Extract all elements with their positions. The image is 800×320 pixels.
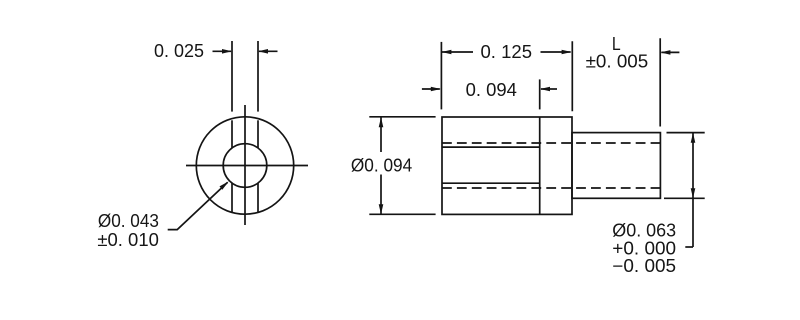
svg-text:0. 025: 0. 025 (154, 41, 204, 61)
hidden hole line upper (442, 142, 660, 144)
dia 0.094 top extension line (369, 116, 435, 118)
vertical centerline (244, 105, 246, 225)
dia 0.063 leader hook (685, 246, 693, 248)
arrowhead dia063 up (691, 133, 696, 143)
arrowhead dia094 down (379, 204, 384, 214)
arrowhead dia094 up (379, 117, 384, 127)
extension line slot end (539, 79, 541, 109)
dia 0.063 dimension line (692, 133, 694, 247)
0.025 dimension line left (213, 50, 232, 52)
extension line body right (571, 41, 573, 111)
slot left edge line upper (231, 120, 233, 148)
horizontal centerline (186, 165, 308, 167)
arrowhead 0.094 right (540, 87, 550, 92)
dia 0.063 bottom extension line (664, 197, 705, 199)
hidden hole line lower (442, 187, 660, 189)
0.125 dimension line right segment (541, 51, 571, 53)
L dimension arrow tail right (661, 51, 679, 53)
arrowhead 0.094 left (431, 87, 441, 92)
svg-text:±0. 010: ±0. 010 (97, 230, 158, 250)
dia 0.094 bottom extension line (369, 213, 435, 215)
extension line left of 0.025 dim (231, 41, 233, 112)
svg-text:Ø0. 043: Ø0. 043 (98, 211, 159, 231)
arrowhead 0.025 right (258, 49, 268, 54)
slot left edge line lower (231, 183, 233, 212)
arrowhead 0.125 right (562, 50, 572, 55)
inner hole circle of end view (223, 144, 267, 188)
dia 0.094 dimension line lower segment (380, 175, 382, 215)
svg-text:±0. 005: ±0. 005 (586, 52, 649, 72)
outer circle of end view (196, 117, 293, 214)
arrowhead dia063 down (691, 188, 696, 198)
dia 0.063 top extension line (667, 132, 705, 134)
dia 0.094 dimension line upper segment (380, 117, 382, 152)
extension line body left (440, 42, 442, 110)
slot right edge line upper (257, 120, 259, 148)
svg-text:0. 125: 0. 125 (481, 42, 533, 62)
arrowhead leader (220, 181, 229, 190)
slot right edge line lower (257, 183, 259, 212)
extension line right of 0.025 dim (257, 41, 259, 112)
arrowhead L right (660, 50, 670, 55)
extension line cylinder right (659, 38, 661, 126)
leader line to hole (168, 182, 228, 229)
small cylinder rectangle (572, 133, 660, 199)
bottom prong top edge (442, 182, 540, 184)
slot end vertical line (539, 117, 541, 214)
0.094 dimension arrow tail left (422, 88, 440, 90)
0.125 dimension line left segment (441, 51, 473, 53)
svg-text:−0. 005: −0. 005 (612, 256, 676, 276)
arrowhead 0.025 left (222, 49, 232, 54)
svg-text:Ø0. 094: Ø0. 094 (351, 156, 412, 176)
side view body rectangle (442, 117, 572, 214)
top prong bottom edge (442, 146, 540, 148)
0.025 dimension line right (259, 50, 278, 52)
svg-text:0. 094: 0. 094 (466, 80, 517, 100)
0.094 dimension arrow tail right (541, 88, 557, 90)
arrowhead 0.125 left (441, 50, 451, 55)
